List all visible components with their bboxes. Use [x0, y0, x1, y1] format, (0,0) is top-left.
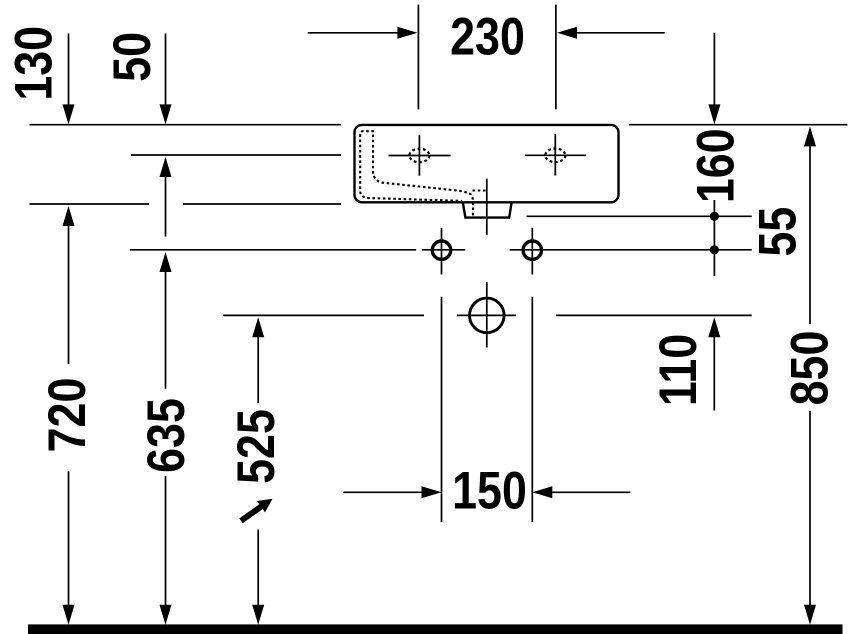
- svg-text:130: 130: [5, 26, 63, 101]
- svg-text:50: 50: [104, 32, 162, 82]
- svg-text:110: 110: [649, 334, 707, 406]
- svg-text:525: 525: [227, 409, 285, 484]
- svg-text:55: 55: [749, 207, 807, 257]
- svg-text:850: 850: [781, 331, 839, 406]
- svg-text:150: 150: [452, 462, 527, 520]
- svg-text:160: 160: [687, 128, 745, 203]
- svg-text:720: 720: [39, 378, 97, 453]
- svg-text:635: 635: [137, 398, 195, 473]
- svg-text:230: 230: [450, 8, 525, 66]
